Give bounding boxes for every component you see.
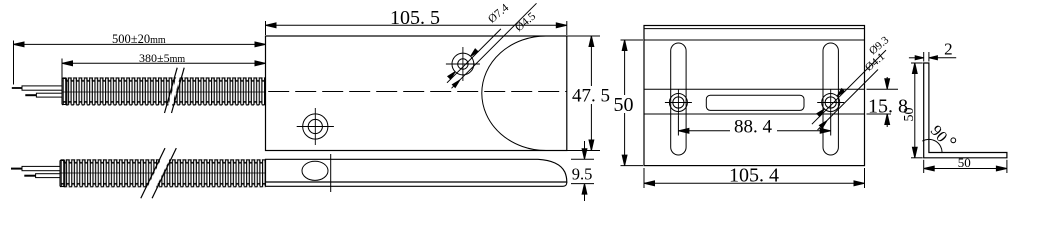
dimension 9.5 bbox=[571, 141, 594, 201]
dimension 105.5 bbox=[266, 21, 567, 35]
dimension 380±5mm bbox=[62, 59, 266, 79]
main body inner arc (reed housing curve) bbox=[482, 36, 546, 151]
main body centerline bbox=[268, 91, 567, 93]
magnet bar oval hole bbox=[302, 161, 328, 180]
svg-text:47. 5: 47. 5 bbox=[572, 86, 610, 107]
plate band bottom line bbox=[644, 113, 865, 115]
svg-text:90: 90 bbox=[927, 122, 950, 145]
magnet bar outline (lower bar) bbox=[266, 159, 567, 182]
dimension 15.8 bbox=[867, 77, 899, 127]
plate outline bbox=[644, 26, 865, 166]
wire 2a (lower cable, top lead) bbox=[11, 166, 60, 170]
dimension 50 (vertical leg) bbox=[911, 63, 923, 158]
svg-text:50: 50 bbox=[958, 155, 971, 170]
slot S1 (left) bbox=[671, 43, 686, 155]
svg-text:Ø4.1: Ø4.1 bbox=[863, 51, 887, 74]
leader line for Ø4.1 bbox=[818, 70, 879, 131]
angle bracket outline bbox=[924, 63, 1007, 158]
svg-text:500±20mm: 500±20mm bbox=[112, 32, 166, 46]
svg-text:Ø7.4: Ø7.4 bbox=[486, 2, 511, 26]
plate band top line bbox=[644, 88, 865, 90]
dimension text 88.4 bbox=[730, 117, 777, 138]
svg-text:105. 4: 105. 4 bbox=[729, 165, 779, 187]
leader line for Ø9.3 bbox=[812, 50, 886, 124]
svg-text:Ø4.5: Ø4.5 bbox=[513, 10, 538, 34]
magnet bar partition line bbox=[330, 154, 332, 192]
wire 1a (upper cable, top lead) bbox=[12, 86, 62, 90]
hole H2 lower bbox=[297, 108, 334, 145]
leader line for Ø4.5 bbox=[452, 3, 537, 88]
hole H3 (left, Ø9.3/Ø4.1) bbox=[665, 89, 692, 116]
leader line for Ø7.4 bbox=[447, 29, 501, 83]
dimension 88.4 bbox=[678, 116, 830, 136]
main body outline bbox=[266, 36, 567, 151]
90 degree angle arc bbox=[922, 139, 942, 152]
dimension 47.5 bbox=[567, 36, 600, 151]
dimension text 50 bbox=[612, 94, 636, 116]
cable 1 break symbol bbox=[165, 68, 185, 113]
plate top edge line bbox=[644, 28, 865, 30]
cable 1 centerline bbox=[62, 91, 266, 93]
dimension 50 (horizontal leg) bbox=[924, 160, 1007, 173]
svg-text:380±5mm: 380±5mm bbox=[139, 51, 185, 65]
svg-text:105. 5: 105. 5 bbox=[390, 7, 440, 29]
dimension text 9.5 bbox=[571, 164, 594, 183]
dimension text 47.5 bbox=[570, 86, 612, 107]
label recess bbox=[706, 95, 804, 110]
magnet bar base strip bbox=[266, 182, 567, 186]
wire 1b (upper cable, bottom lead) bbox=[25, 93, 62, 97]
dimension 105.4 bbox=[644, 168, 865, 188]
cable 2 (lower armored conduit) bbox=[60, 159, 266, 187]
dimension 50 (plate height) bbox=[621, 40, 644, 166]
cable 2 centerline bbox=[60, 172, 266, 174]
svg-text:50: 50 bbox=[614, 94, 634, 116]
cable 1 (upper armored conduit) bbox=[62, 77, 266, 105]
hole H1 upper (Ø7.4 / Ø4.5 counterbore) bbox=[446, 47, 480, 81]
dimension 500±20mm bbox=[14, 41, 266, 85]
svg-text:50: 50 bbox=[902, 108, 917, 122]
svg-text:2: 2 bbox=[944, 39, 953, 58]
hole H4 (right, Ø9.3/Ø4.1) bbox=[817, 89, 844, 116]
wire 2b (lower cable, bottom lead) bbox=[24, 174, 60, 178]
plate bend line bbox=[644, 39, 865, 41]
degree symbol circle bbox=[951, 138, 956, 143]
dimension 2 (thickness) bbox=[909, 52, 956, 62]
cable 2 break symbol bbox=[141, 148, 177, 198]
slot S2 (right) bbox=[823, 43, 838, 155]
svg-text:9.5: 9.5 bbox=[572, 164, 593, 183]
svg-text:88. 4: 88. 4 bbox=[734, 117, 773, 138]
